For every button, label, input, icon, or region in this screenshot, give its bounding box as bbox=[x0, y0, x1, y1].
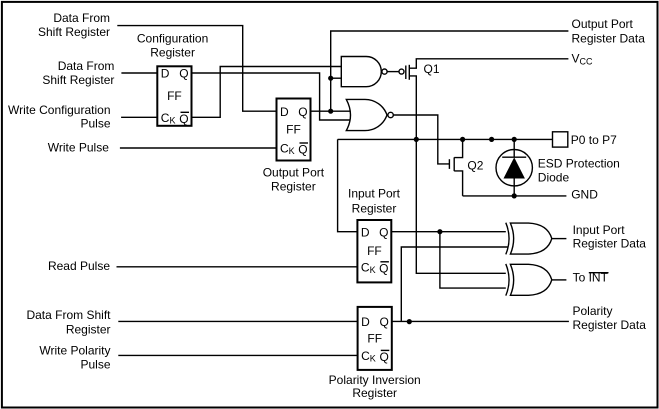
wire: NAND output to Q1 gate bbox=[387, 71, 399, 73]
svg-text:Q: Q bbox=[379, 261, 388, 275]
svg-text:Register: Register bbox=[150, 46, 195, 60]
svg-text:FF: FF bbox=[367, 331, 382, 345]
wire: XOR1 output bbox=[552, 238, 567, 240]
svg-text:Register: Register bbox=[271, 179, 316, 193]
svg-text:Register Data: Register Data bbox=[572, 32, 646, 46]
svg-text:Pulse: Pulse bbox=[80, 117, 110, 131]
wire: write polarity pulse to Polarity FF CK bbox=[118, 354, 357, 356]
svg-text:D: D bbox=[280, 105, 289, 119]
junction diode on GND line bbox=[512, 193, 517, 198]
svg-text:Register Data: Register Data bbox=[573, 236, 647, 250]
junction Q2 on P0-P7 line bbox=[460, 137, 465, 142]
svg-text:Output Port: Output Port bbox=[572, 17, 634, 31]
svg-text:Q: Q bbox=[298, 105, 307, 119]
svg-text:Q: Q bbox=[179, 112, 188, 126]
svg-text:Input Port: Input Port bbox=[348, 187, 401, 201]
wire: NOR output to Q2 gate bbox=[393, 115, 449, 164]
wire: Polarity FF Q up to XOR1 lower input bbox=[401, 247, 508, 321]
svg-text:Data From: Data From bbox=[58, 59, 115, 73]
pad P0 to P7 bbox=[553, 132, 568, 147]
flip-flop U3 Input Port Register bbox=[357, 220, 391, 282]
svg-text:Write Polarity: Write Polarity bbox=[39, 343, 110, 357]
junction on Output Port FF Q line bbox=[328, 109, 333, 114]
ESD protection diode D1 bbox=[496, 150, 532, 186]
NOR gate bbox=[346, 99, 387, 130]
svg-text:Q: Q bbox=[380, 315, 389, 329]
XOR gate X2 (To INT) bbox=[506, 264, 509, 296]
wire: NAND lower input bbox=[331, 77, 342, 79]
svg-text:Input Port: Input Port bbox=[573, 223, 626, 237]
wire: shift-register data to Configuration FF D bbox=[121, 72, 157, 74]
svg-text:FF: FF bbox=[286, 123, 301, 137]
wire: GND line bbox=[463, 195, 567, 197]
flip-flop U1 Configuration Register bbox=[157, 66, 191, 126]
wire: FF Q down to XOR2 lower input bbox=[440, 232, 508, 288]
svg-text:Read Pulse: Read Pulse bbox=[48, 259, 110, 273]
svg-text:FF: FF bbox=[167, 89, 182, 103]
junction on Input Port FF Q line bbox=[437, 229, 442, 234]
wire: feedback bus up to Output Port Register Data bbox=[331, 31, 569, 111]
svg-text:FF: FF bbox=[367, 244, 382, 258]
wire: Output Port FF Q to NOR upper input bbox=[311, 110, 350, 112]
flip-flop U4 Polarity Inversion Register bbox=[358, 307, 392, 370]
svg-text:Q: Q bbox=[380, 350, 389, 364]
svg-text:Q: Q bbox=[179, 67, 188, 81]
svg-text:D: D bbox=[361, 225, 370, 239]
svg-text:Register: Register bbox=[352, 386, 397, 400]
svg-text:Data From: Data From bbox=[53, 11, 110, 25]
wire: shift-register data to Polarity FF D bbox=[118, 320, 357, 322]
NOR output bubble bbox=[388, 112, 393, 117]
wire: write configuration pulse to Configuration FF CK bbox=[121, 116, 157, 118]
transistor Q2 (NMOS) bbox=[448, 159, 450, 169]
svg-text:Polarity: Polarity bbox=[573, 304, 613, 318]
junction Q1 drain on P0-P7 line bbox=[414, 137, 419, 142]
junction on NAND lower input bbox=[328, 76, 333, 81]
svg-text:Configuration: Configuration bbox=[137, 31, 208, 45]
svg-text:Pulse: Pulse bbox=[80, 358, 110, 372]
XOR gate X1 (Input Port Register Data) bbox=[506, 223, 509, 255]
svg-text:D: D bbox=[161, 67, 170, 81]
svg-text:Shift Register: Shift Register bbox=[38, 25, 110, 39]
svg-text:Q: Q bbox=[379, 225, 388, 239]
transistor Q1 (PMOS) bbox=[399, 69, 404, 74]
wire: Polarity FF Q to Polarity Register Data bbox=[392, 320, 569, 322]
svg-text:ESD Protection: ESD Protection bbox=[538, 157, 620, 171]
svg-text:Output Port: Output Port bbox=[263, 166, 325, 180]
node P0-P7 line bbox=[338, 138, 553, 140]
junction diode on P0-P7 line bbox=[512, 137, 517, 142]
svg-text:Data From Shift: Data From Shift bbox=[26, 308, 111, 322]
svg-text:Diode: Diode bbox=[538, 171, 570, 185]
svg-text:Q1: Q1 bbox=[424, 62, 440, 76]
wire: Q2 source down to GND line bbox=[454, 171, 462, 196]
svg-text:Register: Register bbox=[352, 201, 397, 215]
wire: read pulse to Input Port FF CK bbox=[117, 266, 358, 268]
flip-flop U2 Output Port Register bbox=[277, 99, 311, 161]
NAND output bubble bbox=[382, 69, 387, 74]
wire: write pulse to Output Port FF CK bbox=[120, 147, 277, 149]
wire: Q2 drain up to P0-P7 node bbox=[454, 139, 462, 157]
wire: XOR2 output bbox=[552, 279, 567, 281]
wire: Q1 source to VCC bbox=[409, 59, 568, 68]
wire: top shift-register data to Output Port FF D input bbox=[117, 26, 276, 112]
wire: Q1 drain down to P0-P7 node bbox=[409, 76, 416, 139]
junction on Polarity FF Q line bbox=[407, 319, 412, 324]
svg-text:Write Pulse: Write Pulse bbox=[48, 141, 109, 155]
wire: Input Port FF Q to XOR1 upper input bbox=[391, 231, 508, 233]
svg-text:Register Data: Register Data bbox=[573, 318, 647, 332]
NAND gate bbox=[341, 57, 381, 87]
svg-text:Shift Register: Shift Register bbox=[42, 73, 114, 87]
wire: Configuration FF Qbar to NAND upper input bbox=[192, 67, 342, 118]
svg-text:Q2: Q2 bbox=[467, 159, 483, 173]
svg-text:GND: GND bbox=[571, 188, 598, 202]
svg-text:Write Configuration: Write Configuration bbox=[8, 103, 111, 117]
svg-text:P0 to P7: P0 to P7 bbox=[571, 133, 617, 147]
wire: pin sense down to To-INT XOR upper input bbox=[416, 139, 508, 273]
svg-text:Register: Register bbox=[66, 322, 111, 336]
svg-text:Q: Q bbox=[298, 143, 307, 157]
wire: Configuration FF Q to NOR lower input bbox=[192, 73, 351, 120]
svg-text:D: D bbox=[361, 315, 370, 329]
wire: P0-P7 node down to Input Port FF D bbox=[338, 139, 358, 231]
junction mid on P0-P7 line bbox=[489, 137, 494, 142]
